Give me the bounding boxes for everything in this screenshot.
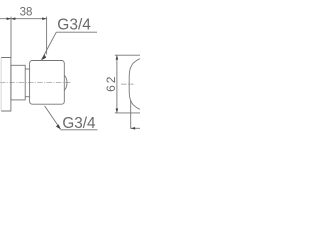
body block (side view) (11, 65, 25, 100)
label G3/4 bottom leader (45, 106, 61, 129)
svg-text:G3/4: G3/4 (62, 115, 96, 132)
dimension 38 arrowheads (7, 17, 47, 20)
wall plate left edge (faint) (0, 58, 2, 112)
dimension 38 line (0, 17, 47, 58)
centerline of side view (0, 82, 72, 84)
bottom width dimension extension line (130, 100, 132, 129)
svg-text:G3/4: G3/4 (57, 16, 91, 33)
neck groove top (25, 68, 30, 70)
dimension 62 arrowheads (116, 55, 119, 113)
svg-text:62: 62 (104, 75, 118, 92)
label G3/4 bottom underline (60, 129, 97, 131)
cap nut (side view rounded rect) (30, 61, 65, 105)
neck groove bottom (25, 96, 30, 98)
cap bulge arc (64, 75, 67, 90)
label G3/4 top leader arrowhead (41, 55, 46, 61)
dimension 62 extension lines (115, 55, 140, 113)
bottom width dimension line (131, 127, 140, 129)
wall plate (side view) (1, 58, 11, 112)
front view centerline tick (121, 83, 134, 85)
label G3/4 bottom leader arrowhead (56, 124, 61, 129)
front view squircle left edge (129, 59, 140, 110)
bottom width dimension arrowhead (131, 127, 135, 130)
label G3/4 top leader (42, 32, 97, 59)
svg-text:38: 38 (20, 7, 33, 19)
